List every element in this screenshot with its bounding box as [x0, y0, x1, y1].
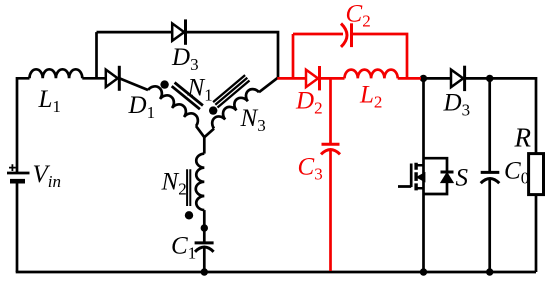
- svg-text:L1: L1: [38, 86, 61, 116]
- node switch junction: [420, 75, 427, 82]
- capacitor C0: [481, 171, 500, 174]
- node on N2-C1 wire: [201, 224, 208, 231]
- wire: C2 bypass left vertical: [292, 34, 295, 78]
- wire: N1 to center node: [196, 126, 204, 137]
- wire: N3 to top-right corner: [259, 78, 278, 93]
- svg-text:L2: L2: [359, 82, 382, 112]
- wire: top bypass rail right part + down to corner: [186, 32, 279, 78]
- capacitor C2: [341, 24, 347, 47]
- wire: battery to bottom-left corner: [16, 183, 19, 272]
- core lines N1: [172, 83, 203, 110]
- wire: C2 bypass top rail right + right vertical: [353, 34, 407, 78]
- svg-text:S: S: [456, 165, 469, 192]
- svg-text:C1: C1: [171, 233, 196, 263]
- wire: L1 to D1 anode: [82, 77, 106, 80]
- wire: right vertical upper + top-right corner: [465, 78, 536, 153]
- resistor R: [529, 154, 544, 195]
- wire: right vertical lower (R to bottom corner): [535, 195, 538, 272]
- core lines N3: [213, 75, 249, 107]
- diode D3 (output): [451, 70, 463, 88]
- wire: MOSFET branch main vertical: [422, 78, 425, 272]
- polarity dot N2: [185, 211, 193, 219]
- svg-text:D3: D3: [171, 44, 199, 74]
- wire: left vertical upper + top-left stub to L1: [17, 78, 30, 172]
- diode D2: [306, 70, 318, 87]
- wire: D1 cathode diagonal to N1: [119, 78, 148, 90]
- wire: C2 bypass top rail left: [293, 33, 343, 36]
- svg-text:C3: C3: [298, 154, 323, 184]
- polarity dot N3: [209, 106, 217, 114]
- svg-text:N1: N1: [187, 75, 213, 105]
- diode D3 (top bypass): [172, 23, 184, 40]
- winding N1: [148, 86, 198, 126]
- wire: center node down to N2: [203, 137, 206, 153]
- svg-text:R: R: [514, 123, 532, 153]
- capacitor C1: [195, 241, 214, 244]
- svg-text:D1: D1: [128, 92, 156, 122]
- core lines N2: [187, 169, 190, 206]
- node output junction: [486, 75, 493, 82]
- wire: red rail corner to D2 anode: [277, 77, 306, 80]
- inductor L1: [30, 69, 83, 78]
- diode D1: [106, 70, 118, 87]
- wire: C0 branch upper: [488, 78, 491, 172]
- node switch-bottom: [420, 268, 427, 275]
- wire: C0 to bottom rail: [488, 178, 491, 272]
- red subcircuit: [277, 23, 421, 271]
- wire: center node to N3: [204, 129, 214, 138]
- wire: D2 cathode to L2: [320, 77, 345, 80]
- wire: N2 to C1: [203, 210, 206, 243]
- inductor L2: [345, 70, 398, 79]
- wire: L2 to black junction: [398, 77, 421, 80]
- svg-text:Vin: Vin: [33, 161, 62, 191]
- polarity dot N1: [160, 80, 168, 88]
- svg-text:D3: D3: [443, 90, 471, 120]
- wire: C3 to bottom rail: [329, 150, 332, 271]
- wire: bottom rail: [16, 271, 536, 274]
- transistor S (MOSFET): [398, 158, 454, 194]
- wire: top bypass rail left part: [97, 31, 173, 34]
- svg-text:N2: N2: [161, 169, 187, 199]
- svg-text:C2: C2: [346, 1, 371, 31]
- winding N3: [212, 89, 259, 128]
- wire: C1 to bottom rail: [203, 248, 206, 272]
- wire: C3 branch upper: [329, 78, 332, 144]
- wire: D3 anode to red junction: [420, 77, 451, 80]
- svg-text:D2: D2: [295, 88, 323, 118]
- node C0-bottom: [486, 268, 493, 275]
- capacitor C3: [322, 143, 340, 146]
- winding N2: [196, 154, 205, 211]
- wire: branch up to top bypass: [95, 32, 98, 78]
- node C1-bottom: [201, 268, 208, 275]
- source Vin battery: [7, 172, 30, 175]
- svg-text:N3: N3: [240, 105, 266, 135]
- svg-text:C0: C0: [504, 158, 529, 188]
